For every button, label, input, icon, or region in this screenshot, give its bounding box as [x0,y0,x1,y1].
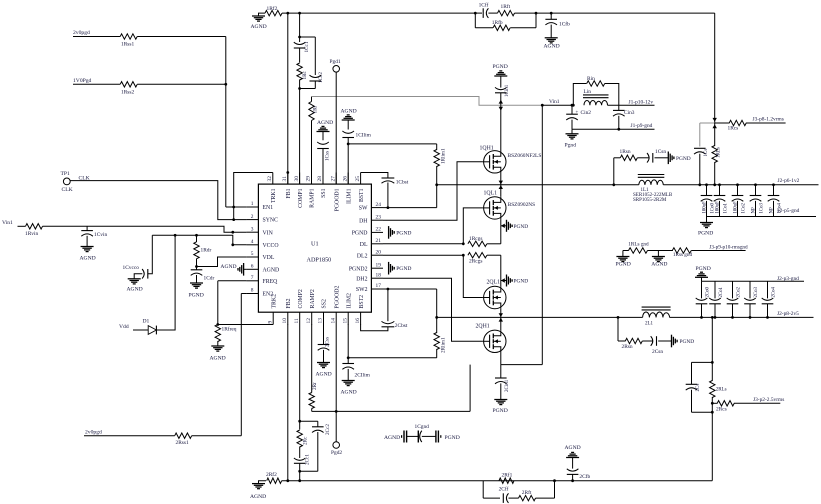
svg-text:1Rss2: 1Rss2 [121,89,134,95]
svg-text:21: 21 [376,238,382,244]
svg-text:1Rsn: 1Rsn [620,149,631,155]
ground PGND snubber 1 [667,152,669,165]
svg-text:2Co0: 2Co0 [705,287,710,298]
svg-text:Cin3: Cin3 [624,110,635,116]
wire 1Rft to main [515,12,537,14]
svg-text:1Rfb: 1Rfb [492,19,503,26]
svg-text:2QH1: 2QH1 [476,324,490,330]
wire 2Rcgs to 2QL1 source [487,254,501,256]
svg-text:NP: NP [769,207,774,213]
svg-text:DL: DL [360,242,368,248]
ground PGND at 1Cgnd [435,431,437,443]
resistor 1Rcgs [468,241,487,246]
ground AGND below 1Cfb [545,37,558,39]
wire FB2 pin 10 drop [287,324,289,481]
svg-text:Pgnd: Pgnd [565,143,577,149]
svg-text:PGND: PGND [514,224,529,230]
svg-text:2Cff: 2Cff [499,486,509,493]
capacitor Cin3 [618,105,620,110]
capacitor 1Cfb [550,13,552,19]
svg-text:RAMP2: RAMP2 [310,289,316,308]
svg-text:32: 32 [267,176,273,182]
wire EN2 pin 8 down to 2v0pgd row [241,293,246,295]
svg-text:PGND: PGND [616,261,631,267]
svg-text:2Cc2: 2Cc2 [325,424,331,435]
wire filter output to J1 [608,104,655,106]
svg-text:1Rr: 1Rr [312,105,318,113]
capacitor 1Cc2 [314,37,316,75]
svg-text:11: 11 [294,318,300,323]
wire RAMP1 pin 29 [311,121,313,185]
svg-text:27: 27 [330,176,336,182]
svg-text:AGND: AGND [80,256,96,262]
wire VCCO bus [152,235,246,245]
svg-text:1Rdr: 1Rdr [201,248,212,254]
svg-text:1Rcs: 1Rcs [728,126,739,132]
svg-text:2L1: 2L1 [645,321,654,326]
junction SW node [435,183,438,186]
svg-text:SW2: SW2 [356,287,368,293]
wire sense2 to feedback bottom [711,412,713,481]
svg-text:1QH1: 1QH1 [480,146,494,152]
svg-text:100uF: 100uF [733,201,738,214]
svg-text:J1-p9-gnd: J1-p9-gnd [631,123,653,129]
svg-text:14: 14 [330,318,336,324]
wire CLK to SYNC pin 2 [70,181,246,220]
svg-text:1Cvcco: 1Cvcco [123,265,140,271]
svg-text:COMP1: COMP1 [298,188,304,207]
svg-text:1Csn: 1Csn [655,149,666,155]
svg-text:1Co3: 1Co3 [759,203,764,214]
resistor 2Rlim1 [436,317,438,333]
junction Vin1 node [541,104,544,107]
node comp2 bottom rail [300,470,318,472]
wire 2QH1 drain to Vin corner [500,353,502,365]
svg-text:2Rc: 2Rc [302,436,308,445]
svg-text:100uF: 100uF [715,201,720,214]
wire 1QL1 source to PGND [500,219,502,226]
svg-text:COMP2: COMP2 [298,289,304,308]
svg-text:2Rss1: 2Rss1 [176,440,189,446]
wire to rmsgnd jack [691,250,745,252]
test point Pgd2 [333,442,340,449]
svg-text:AGND: AGND [341,109,357,115]
wire DH2 pin 18 to 2QH1 gate [383,278,483,341]
resistor 1Rvin [26,224,43,229]
svg-text:1Cc1: 1Cc1 [304,41,310,52]
svg-text:10: 10 [282,318,288,324]
svg-text:J3-p2-2.5vrms: J3-p2-2.5vrms [753,397,784,403]
node sense2 top rail [692,361,713,363]
ground PGND2 at pin 19 [388,262,390,275]
svg-text:2Co3: 2Co3 [754,287,759,298]
wire output gnd rail ch2 [702,280,805,282]
svg-text:AGND: AGND [263,267,280,273]
svg-text:2Co4: 2Co4 [771,287,776,298]
svg-text:25: 25 [355,176,361,182]
resistor Rin [573,84,586,106]
svg-text:6: 6 [251,264,254,270]
svg-text:29: 29 [306,176,312,182]
svg-text:Lin: Lin [584,89,592,95]
wire 2QL1 source to PGND [501,278,505,282]
capacitor 1Cdr [196,267,198,270]
svg-text:12: 12 [306,318,312,324]
junction VIN row [231,231,234,234]
junction pgood bus [224,83,227,86]
ground AGND mid node [657,251,659,257]
svg-text:VDL: VDL [263,255,275,261]
svg-text:1Cs: 1Cs [704,149,709,157]
wire SW1 to inductor 1L1 [501,184,639,186]
svg-text:ILIM1: ILIM1 [346,188,352,204]
junction 2Cfb [571,479,574,482]
svg-text:2Cfb: 2Cfb [579,473,590,480]
test point TP1 [63,178,70,185]
svg-text:1Rc: 1Rc [302,70,308,79]
svg-text:DH: DH [359,218,368,224]
svg-text:NP: NP [751,207,756,213]
svg-text:PGOOD2: PGOOD2 [334,286,340,309]
svg-text:7: 7 [251,275,254,281]
svg-text:2Rcgs: 2Rcgs [469,259,482,265]
svg-text:SS2: SS2 [322,299,328,308]
node sense2 bottom rail [692,411,713,413]
wire FB1 pin 31 drop [287,13,289,184]
resistor 1Rss1 [120,34,137,39]
svg-text:30: 30 [294,176,300,182]
transistor 1QH1 high-side FET [500,105,502,151]
svg-text:PGND: PGND [698,231,713,237]
junction VDL node [195,265,198,268]
capacitor 1Css [322,132,324,141]
svg-text:AGND: AGND [220,264,236,270]
svg-text:SYNC: SYNC [263,218,279,224]
wire BST1 pin 25 [361,173,388,179]
ground PGND at 1QL1 source [506,220,508,232]
svg-text:FB2: FB2 [286,298,292,308]
junction TRK2 to FREQ node [216,323,219,326]
resistor 2Rf1 [499,478,514,483]
wire ILIM1 to 1Rlim1 [348,143,437,145]
resistor 1Rc [297,63,302,80]
junction ILIM2 node [347,324,349,358]
junction DL gate node [462,242,465,245]
svg-text:VIN: VIN [263,230,274,236]
ground PGND output bank ch2 [701,277,703,281]
svg-text:2Rft: 2Rft [522,489,532,496]
svg-text:Vdd: Vdd [119,324,129,330]
U1 bottom pin stubs [272,312,274,324]
svg-text:1RLs: 1RLs [717,147,722,158]
inductor Lin [584,100,608,105]
wire BST2 pin 16 [361,324,388,331]
ground Pgnd below Cin2 [571,129,573,134]
junction VCCO bus [174,234,177,237]
ground AGND below 1Cvin [81,246,94,248]
inductor 1L1 [639,180,664,185]
capacitor 1Cgnd [406,431,408,443]
wire FB2 feedback bottom [282,480,713,482]
junction DL2 gate node [462,254,465,257]
svg-text:1CIlim: 1CIlim [356,133,372,139]
capacitor 2Cs [691,362,693,384]
resistor 1Rcs to rms jack [715,122,730,124]
svg-text:PGND: PGND [696,266,711,272]
svg-text:U1: U1 [311,241,319,248]
ground AGND above 2Cfb [566,457,579,459]
junction Cin2 top [571,104,574,107]
wire TRK1 to EN/SYNC rows [234,173,273,220]
svg-text:Vin1: Vin1 [549,99,560,105]
svg-text:5: 5 [251,251,254,257]
ground PGND at 1RLs gnd [622,251,624,257]
capacitor 2CIlim [347,358,349,364]
svg-text:2: 2 [251,214,254,220]
inductor 2L1 [643,312,670,317]
wire output rail 1v2 [663,184,818,186]
svg-text:BST1: BST1 [359,188,365,202]
wire pgood bus down to EN1 [225,37,227,208]
svg-text:100uF: 100uF [702,201,707,214]
wire 1QH1 source to SW [500,173,502,185]
wire ILIM2 to 2Rlim1 [348,357,437,359]
svg-text:1Rlim1: 1Rlim1 [440,148,446,164]
snubber 1Rsn 1Csn [612,183,615,186]
resistor 2Rcs to rms jack [712,402,717,404]
svg-text:PGND: PGND [680,339,695,345]
output capacitor bank ch1 [705,183,708,186]
svg-text:8: 8 [251,288,254,294]
svg-text:BST2: BST2 [359,295,365,309]
svg-text:J2-p3-gnd: J2-p3-gnd [777,276,799,282]
wire SW2 pin 17 net [383,288,437,290]
svg-text:2Rcs: 2Rcs [716,407,727,413]
capacitor 1Cvin [86,226,88,230]
ground AGND below 2Css [317,362,330,364]
resistor 1Rft [498,10,515,15]
transistor 1QL1 low-side FET [500,185,502,197]
svg-text:AGND: AGND [317,120,333,126]
resistor 1Rfreq [217,281,219,325]
capacitor 1Cbst [382,177,395,179]
svg-text:PGND: PGND [396,230,411,236]
transistor 2QL1 low-side FET channel 2 [500,281,502,287]
ground PGND below 2Cin1 [494,399,507,401]
svg-text:TRK1: TRK1 [271,188,277,203]
wire PGOOD1 pin 27 [335,72,337,184]
svg-text:PGND: PGND [189,293,204,299]
svg-text:BSZ060NF2LS: BSZ060NF2LS [508,153,542,159]
U1 top pin stubs [272,173,274,185]
svg-text:TRK2: TRK2 [271,294,277,309]
svg-text:1QL1: 1QL1 [484,190,498,196]
ground PGND at 2QL1 source [506,275,508,287]
svg-text:EN1: EN1 [263,205,274,211]
capacitor Cin2 [571,105,573,114]
svg-text:2Cbst: 2Cbst [395,323,408,329]
svg-text:Cin2: Cin2 [581,110,592,116]
U1 right pin stubs [371,207,383,209]
resistor 1Rss gnd [672,248,691,253]
svg-text:SS1: SS1 [321,188,327,197]
svg-text:23: 23 [376,214,382,220]
wire DL pin 21 to 1QL1 gate [383,243,463,245]
node comp1 bottom rail [300,88,316,90]
node comp2 top rail [300,420,318,422]
resistor 2Rf2 [267,478,282,483]
capacitor 2Cc2 [317,421,319,427]
wire SW pin 24 net [383,207,437,209]
svg-text:20: 20 [376,249,382,255]
resistor 2Rcgs [468,253,487,258]
wire 1Rcgs to 1QL1 source [487,243,501,245]
svg-text:PGND: PGND [445,435,460,441]
svg-text:1Rft: 1Rft [501,3,511,10]
capacitor 1CIlim [347,120,349,130]
svg-text:DL2: DL2 [357,253,368,259]
wire 1Cff to 1Rft [488,12,497,14]
capacitor 1Cc1 [299,37,301,42]
test point Pgd1 [333,66,340,73]
svg-text:J3-p8-1.2vrms: J3-p8-1.2vrms [753,117,784,123]
svg-text:1Cdr: 1Cdr [204,276,215,282]
wire COMP1 drop to comp network [299,13,301,37]
svg-text:2Rf1: 2Rf1 [502,471,513,478]
svg-text:SRP1055-2R2M: SRP1055-2R2M [633,198,667,203]
svg-text:1Css: 1Css [325,151,331,161]
svg-text:2Css: 2Css [325,337,331,347]
svg-text:DH2: DH2 [356,276,367,282]
svg-text:AGND: AGND [127,287,143,293]
svg-text:1RLs gnd: 1RLs gnd [628,241,649,247]
svg-text:3: 3 [251,226,254,232]
wire COMP2 pin 11 drop [299,325,301,422]
svg-text:1Cff: 1Cff [479,1,489,8]
svg-text:1Co1: 1Co1 [723,203,728,214]
snubber 2Rsn 2Csn [617,316,620,319]
junction SW2 node [435,316,438,319]
svg-text:2Rr: 2Rr [312,382,318,390]
svg-text:J2-p5-gnd: J2-p5-gnd [778,208,800,214]
U1 left pin stubs [246,206,258,208]
wire FB1 feedback top [282,12,475,14]
svg-text:1Cbst: 1Cbst [396,179,409,185]
wire output rail 2v5 [670,316,814,318]
svg-text:1Rss1: 1Rss1 [121,42,134,48]
svg-text:PGND2: PGND2 [349,266,368,272]
junction ILIM1 node [347,143,350,146]
ground AGND below 1Rfreq [211,345,224,347]
svg-text:2Co2: 2Co2 [736,287,741,298]
ground PGND output bank ch1 [706,217,708,223]
ground PGND below 1Cdr [190,282,203,284]
wire filter ground rail [572,128,655,130]
svg-text:19: 19 [376,262,382,268]
svg-text:1Rvin: 1Rvin [25,231,38,237]
ground AGND at pin 6 [244,268,247,270]
svg-text:VCCO: VCCO [263,243,279,249]
svg-text:Pgd1: Pgd1 [330,59,341,65]
svg-text:24: 24 [376,202,382,208]
resistor 1Rf2 [265,10,282,15]
capacitor 1Cvcco [148,235,152,273]
junction PGOOD2 crossing [335,410,338,413]
svg-text:2Cs: 2Cs [696,384,701,392]
capacitor 1Cin1 [500,76,502,88]
svg-text:2Rf2: 2Rf2 [266,471,277,478]
svg-text:1Rfreq: 1Rfreq [222,326,237,333]
wire DH pin 23 to 1QH1 gate [383,162,483,220]
svg-text:2Cc1: 2Cc1 [304,454,310,465]
resistor 2Rr [311,324,313,393]
svg-text:AGND: AGND [565,445,581,451]
svg-text:J1-p10-12v: J1-p10-12v [629,100,654,106]
svg-text:RAMP1: RAMP1 [310,188,316,207]
svg-text:PGND: PGND [514,279,529,285]
wire 2v0pgd to EN bus [73,36,120,38]
transistor 2QH1 high-side FET channel 2 [500,317,502,330]
svg-text:+: + [576,111,579,116]
wire SW2 to inductor 2L1 [501,316,643,318]
wire COMP1 pin 30 [299,89,301,185]
wire Vdd to diode [133,329,148,331]
wire PGOOD2 pin 14 [335,325,337,442]
svg-text:1: 1 [251,201,254,207]
wire to AGND node [648,250,673,252]
svg-text:2v0pgd: 2v0pgd [73,30,90,36]
resistor 1Rdr [196,235,198,242]
svg-text:1Cgnd: 1Cgnd [415,424,430,430]
ground AGND below 2CIlim [342,380,355,382]
svg-text:J2-p6-1v2: J2-p6-1v2 [778,178,800,184]
wire Vin gray net [312,97,543,106]
capacitor 2Cfb [572,474,574,480]
svg-text:2Rlim1: 2Rlim1 [440,337,446,353]
svg-text:31: 31 [282,176,288,182]
wire FB1 sense drop [714,13,716,123]
svg-text:1Co2: 1Co2 [741,203,746,214]
svg-text:ADP1850: ADP1850 [307,257,332,264]
svg-text:1Rf2: 1Rf2 [267,5,278,12]
capacitor 1Cs [694,147,706,149]
svg-text:1Cfb: 1Cfb [559,21,570,28]
junction 1Cfb [550,12,553,15]
svg-text:Vin1: Vin1 [2,220,13,226]
svg-text:28: 28 [317,176,323,182]
wire DL2 pin 20 to 2QL1 gate [383,254,463,256]
wire comp2 to FB2 net [299,471,301,480]
wire VDL node to pin 5 [197,257,247,267]
resistor 2Rc [299,421,301,429]
capacitor 2Css [323,324,325,345]
svg-text:2v0pgd: 2v0pgd [85,429,102,435]
svg-text:PGOOD1: PGOOD1 [334,188,340,211]
svg-text:1V0Pgd: 1V0Pgd [73,78,92,84]
op-amp U1 ADP1850 controller body [258,184,371,312]
wire FB2 sense drop [711,316,714,319]
ground AGND at 1Rf2 [259,13,266,16]
svg-text:AGND: AGND [316,372,332,378]
capacitor 2Cbst [382,326,395,328]
svg-text:J3-p9-p10-rmsgnd: J3-p9-p10-rmsgnd [709,244,748,250]
capacitor 2Cc1 [294,462,306,464]
svg-text:1Cc2: 1Cc2 [318,72,324,83]
wire 1V0Pgd row [73,83,120,85]
svg-text:J2-p8-2v5: J2-p8-2v5 [777,311,799,317]
diode D1 [148,326,156,335]
svg-text:Pgd2: Pgd2 [331,450,342,456]
